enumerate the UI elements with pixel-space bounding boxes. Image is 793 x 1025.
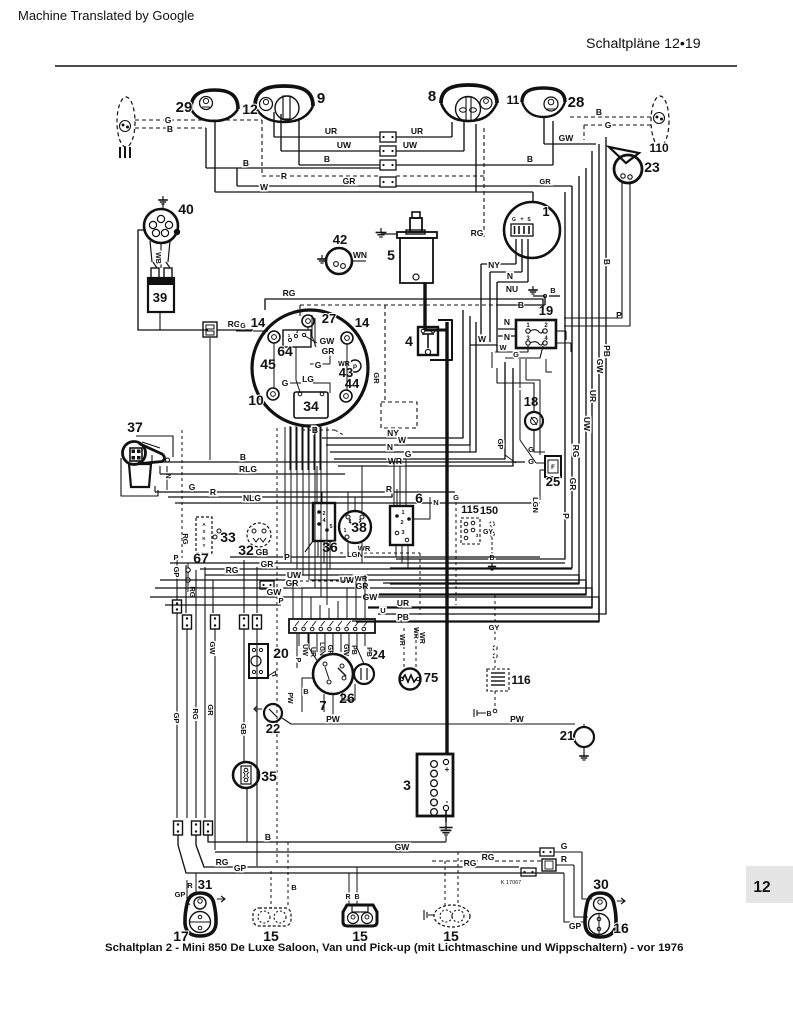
svg-text:G: G	[240, 323, 246, 330]
svg-text:UW: UW	[340, 575, 355, 585]
speedometer 34	[294, 392, 328, 418]
wire RG dashed bottom	[432, 852, 541, 862]
label 4	[405, 333, 413, 349]
svg-text:4: 4	[405, 333, 413, 349]
wire NLG band	[175, 493, 540, 503]
svg-text:U: U	[380, 606, 385, 615]
svg-text:22: 22	[266, 721, 280, 736]
rear lamp 17 / 31	[185, 893, 225, 936]
page number Schaltplaene 12-19	[586, 36, 701, 52]
svg-text:RLG: RLG	[239, 464, 257, 474]
fuel pump 5	[376, 212, 437, 283]
wire GY dashed	[489, 595, 500, 668]
svg-text:P: P	[294, 658, 301, 663]
svg-text:RG: RG	[283, 288, 296, 298]
strip feed wires down	[299, 633, 365, 650]
svg-text:G: G	[561, 841, 568, 851]
wire N staircase	[330, 322, 476, 452]
svg-text:Machine Translated by Google: Machine Translated by Google	[18, 8, 194, 23]
svg-text:GP: GP	[496, 439, 505, 450]
svg-text:Y: Y	[202, 543, 205, 548]
label 25	[546, 474, 560, 489]
switch 32 (dashed circle)	[247, 523, 271, 547]
svg-text:20: 20	[273, 645, 289, 661]
strip top feed wires	[293, 575, 365, 619]
svg-text:GR: GR	[568, 478, 578, 491]
dashed vertical mid	[276, 428, 278, 866]
svg-text:WR: WR	[388, 456, 402, 466]
rear lamp 15 dashed right	[424, 852, 470, 927]
fuel gauge 64	[283, 329, 317, 347]
flasher unit 25	[528, 445, 561, 477]
switch 33 (dashed)	[196, 517, 221, 553]
label 28	[568, 94, 585, 111]
label 19	[539, 303, 553, 318]
svg-text:R: R	[386, 484, 392, 494]
label 5	[387, 247, 395, 263]
ignition lamp 43 44	[349, 360, 361, 372]
svg-text:UR: UR	[411, 126, 423, 136]
inline fuse G	[540, 841, 592, 899]
battery cable (heavy)	[425, 283, 447, 754]
svg-text:PW: PW	[286, 692, 293, 704]
svg-text:GR: GR	[261, 559, 274, 569]
svg-text:UR: UR	[325, 126, 337, 136]
wire GP bottom	[178, 835, 564, 873]
label 12	[242, 101, 258, 117]
svg-text:UR: UR	[588, 390, 598, 402]
wire PW	[282, 714, 575, 724]
wire B band	[152, 425, 525, 462]
svg-text:WR: WR	[418, 632, 425, 644]
svg-text:UW: UW	[403, 140, 418, 150]
distributor 40	[144, 196, 180, 243]
lamp 21	[574, 724, 594, 760]
wire LGN band	[230, 550, 363, 559]
svg-text:NY: NY	[488, 260, 500, 270]
svg-text:GR: GR	[286, 578, 299, 588]
wire GW band 2	[150, 587, 599, 622]
svg-text:18: 18	[524, 394, 538, 409]
svg-text:28: 28	[568, 94, 585, 111]
label 7	[319, 698, 326, 713]
svg-text:38: 38	[351, 519, 367, 535]
marker III left	[120, 147, 130, 158]
wire B ground below 116	[474, 691, 497, 718]
svg-text:B: B	[354, 894, 359, 901]
svg-text:42: 42	[333, 232, 347, 247]
svg-text:RG: RG	[216, 857, 229, 867]
svg-text:P: P	[278, 596, 283, 605]
horn 110 / 23	[609, 147, 642, 183]
svg-text:R: R	[345, 894, 350, 901]
caption	[105, 942, 683, 954]
battery 3	[417, 754, 453, 833]
wire GW from lamp 28	[544, 118, 596, 144]
label 15 centre	[352, 928, 368, 944]
svg-text:39: 39	[153, 290, 167, 305]
panel lamp 14 left	[268, 331, 280, 343]
svg-text:7: 7	[319, 698, 326, 713]
svg-text:B: B	[303, 687, 309, 696]
svg-text:GB: GB	[239, 723, 248, 735]
svg-text:LG: LG	[302, 374, 314, 384]
heated rear window 116 (dashed)	[487, 669, 509, 691]
label 1	[542, 204, 549, 219]
label 44	[345, 376, 360, 391]
svg-text:P: P	[173, 553, 178, 562]
label 45	[260, 356, 276, 372]
page tab 12	[746, 866, 793, 903]
svg-text:GP: GP	[569, 921, 582, 931]
svg-text:W: W	[398, 435, 407, 445]
wire RG left vertical 2	[191, 570, 200, 818]
connector RG small	[501, 868, 536, 886]
svg-text:3: 3	[401, 530, 404, 536]
svg-text:PW: PW	[510, 714, 525, 724]
wire WB coil	[154, 243, 161, 268]
svg-text:25: 25	[546, 474, 560, 489]
cluster internal wiring	[274, 315, 381, 393]
svg-text:24: 24	[371, 647, 386, 662]
label 10	[248, 392, 264, 408]
svg-text:GP: GP	[234, 863, 247, 873]
wire RG dashed drop under headlamp 8	[471, 128, 484, 240]
wire R band	[168, 484, 392, 497]
svg-text:PB: PB	[350, 645, 357, 655]
svg-text:31: 31	[198, 877, 212, 892]
svg-text:LGN: LGN	[531, 497, 540, 513]
svg-text:WR: WR	[355, 574, 368, 583]
svg-text:Schaltpläne 12•19: Schaltpläne 12•19	[586, 36, 701, 52]
svg-text:21: 21	[560, 728, 574, 743]
svg-text:33: 33	[220, 529, 236, 545]
wire RG band mid	[205, 565, 579, 584]
label 21	[560, 728, 574, 743]
lamp bottom right 44	[340, 390, 352, 402]
wire G sidelight right (dashed)	[584, 120, 652, 140]
label 115	[461, 504, 479, 516]
svg-text:G: G	[453, 493, 459, 502]
svg-text:35: 35	[261, 768, 277, 784]
label 8	[428, 88, 436, 105]
svg-text:GB: GB	[256, 547, 269, 557]
wire UW band	[160, 570, 586, 595]
label 24	[365, 647, 386, 662]
wire B sidelight left (dashed)	[135, 124, 206, 134]
heater switch 20	[249, 644, 276, 678]
rear lamp 30 / 16	[585, 893, 625, 937]
multi-pin connector strip	[289, 619, 375, 633]
warning lamp 27	[302, 315, 314, 327]
svg-text:G: G	[512, 217, 516, 223]
wire P band 1	[170, 552, 565, 563]
wire P band 2	[165, 596, 284, 605]
svg-text:RG: RG	[482, 852, 495, 862]
svg-text:GW: GW	[395, 842, 411, 852]
wire UR	[274, 112, 452, 137]
label 18	[524, 394, 538, 409]
cluster drop wires	[290, 426, 320, 470]
label 15 left	[263, 928, 279, 944]
wire GR left vertical	[205, 567, 215, 818]
fuse box 19	[516, 320, 556, 348]
svg-text:B: B	[167, 124, 173, 134]
svg-text:11: 11	[507, 93, 520, 107]
svg-text:RG: RG	[464, 858, 477, 868]
wire GR band 2	[155, 578, 592, 608]
bottom connector row	[174, 821, 213, 835]
svg-text:W: W	[499, 343, 507, 352]
fusebox drop wires	[470, 342, 552, 455]
label 11	[507, 93, 520, 107]
label 116	[511, 673, 531, 687]
label 43	[339, 365, 353, 380]
svg-text:N: N	[433, 498, 438, 507]
label 3	[403, 777, 411, 793]
wire GR band	[200, 559, 572, 569]
svg-text:23: 23	[644, 159, 660, 175]
label 30	[593, 876, 609, 892]
svg-text:27: 27	[322, 311, 336, 326]
svg-text:5: 5	[387, 247, 395, 263]
headlamp 8	[441, 85, 497, 122]
wires into lamp 17	[187, 873, 196, 905]
svg-text:12: 12	[242, 101, 258, 117]
svg-text:37: 37	[127, 419, 143, 435]
svg-text:GR: GR	[206, 704, 215, 716]
svg-text:PB: PB	[397, 612, 409, 622]
label 27	[322, 311, 336, 326]
bundle labels rotated	[561, 259, 622, 519]
svg-text:115: 115	[461, 504, 479, 516]
svg-text:GW: GW	[595, 359, 605, 375]
label 32	[238, 542, 254, 558]
wire G dashed right	[453, 493, 459, 605]
svg-text:K 17067: K 17067	[501, 880, 522, 886]
svg-text:116: 116	[511, 673, 531, 687]
svg-text:1: 1	[401, 510, 404, 516]
wire R (dashed)	[262, 120, 484, 181]
svg-text:2: 2	[322, 511, 325, 517]
svg-text:GP: GP	[172, 567, 181, 578]
connector 150 (dashed)	[488, 522, 496, 570]
label 38	[351, 519, 367, 535]
wire RG to top	[265, 288, 543, 310]
wires to 75 (WR dashed)	[398, 628, 425, 667]
label WN	[353, 250, 367, 260]
label 29	[176, 99, 193, 116]
wire RLG band	[160, 464, 345, 474]
panel lamp 14 right	[341, 332, 353, 344]
svg-text:30: 30	[593, 876, 609, 892]
svg-text:PW: PW	[326, 714, 341, 724]
label 39	[153, 290, 167, 305]
svg-text:N: N	[387, 442, 393, 452]
header rule	[55, 65, 737, 67]
flasher warning lamp 18	[525, 412, 543, 430]
label 35	[261, 768, 277, 784]
wire G band	[155, 482, 455, 492]
horn feed wires	[564, 183, 630, 326]
label R 17	[187, 881, 193, 890]
svg-text:40: 40	[178, 201, 194, 217]
page header text	[18, 8, 194, 23]
cluster drop wires long	[285, 427, 327, 605]
svg-text:14: 14	[251, 315, 266, 330]
wire N wiper	[164, 466, 171, 490]
junction connector row (4 inline connectors)	[380, 132, 396, 187]
switch 24	[354, 664, 374, 684]
svg-text:GW: GW	[320, 336, 336, 346]
svg-text:RG: RG	[471, 228, 484, 238]
wire bundle right side (P GR RG UW UR GW PB)	[352, 137, 606, 621]
svg-text:LGN: LGN	[318, 642, 325, 656]
svg-text:WR: WR	[398, 634, 405, 646]
svg-text:B: B	[265, 832, 271, 842]
svg-text:Schaltplan 2 - Mini 850 De Lux: Schaltplan 2 - Mini 850 De Luxe Saloon, …	[105, 942, 683, 954]
dashed harness boundary	[300, 305, 543, 428]
number plate lamp 15	[343, 867, 377, 926]
svg-text:1: 1	[542, 204, 549, 219]
label 42	[333, 232, 347, 247]
label 20	[273, 645, 289, 661]
wire WR staircase	[338, 368, 513, 466]
svg-text:G: G	[605, 120, 612, 130]
wire B bottom	[208, 826, 451, 842]
svg-text:B: B	[486, 711, 491, 718]
coil low tension wires	[138, 230, 208, 330]
svg-text:NLG: NLG	[243, 493, 261, 503]
svg-text:14: 14	[355, 315, 370, 330]
svg-text:PB: PB	[602, 345, 612, 357]
svg-text:B: B	[596, 107, 602, 117]
wires at control box and fuse box	[470, 239, 571, 359]
svg-text:F: F	[551, 465, 555, 471]
svg-text:N: N	[507, 271, 513, 281]
interior lamp 35	[233, 762, 259, 788]
svg-text:G: G	[513, 350, 519, 359]
switch 75	[400, 669, 421, 690]
label 14 left	[251, 315, 266, 330]
svg-text:GR: GR	[539, 177, 551, 186]
svg-text:RG: RG	[228, 319, 241, 329]
wire GB band	[230, 547, 540, 557]
svg-text:UW: UW	[337, 140, 352, 150]
svg-text:150: 150	[480, 505, 498, 517]
wire N switch 6	[413, 497, 439, 519]
wire B dashed into cluster	[302, 430, 345, 436]
svg-text:GP: GP	[172, 713, 181, 724]
svg-text:R: R	[281, 171, 287, 181]
wire B headlamps	[299, 120, 553, 165]
label 17	[173, 928, 189, 944]
svg-text:GW: GW	[342, 644, 349, 656]
label GP 17	[175, 890, 186, 899]
wire GB vertical to lamp 35	[239, 560, 249, 842]
label 64	[277, 343, 293, 359]
svg-text:G: G	[405, 449, 412, 459]
label 16	[613, 920, 629, 936]
svg-text:-: -	[446, 797, 449, 806]
label 75	[424, 670, 438, 685]
svg-text:B: B	[240, 452, 246, 462]
svg-text:8: 8	[428, 88, 436, 105]
label GY	[483, 529, 493, 536]
svg-text:WR: WR	[338, 361, 350, 368]
label 6	[415, 490, 423, 506]
strip bottom wires to ignition switch	[294, 633, 364, 668]
svg-text:G: G	[189, 482, 196, 492]
svg-text:75: 75	[424, 670, 438, 685]
svg-text:5: 5	[329, 524, 332, 530]
sidelight front right (dashed oval)	[651, 96, 669, 146]
svg-text:10: 10	[248, 392, 264, 408]
wire RG bottom	[196, 835, 519, 868]
connector 115 (dashed)	[461, 518, 480, 544]
svg-text:RG: RG	[571, 445, 581, 458]
svg-text:6: 6	[415, 490, 423, 506]
wires below ignition switch	[302, 678, 355, 724]
svg-text:WN: WN	[353, 250, 367, 260]
ignition switch 26	[313, 654, 353, 694]
wire GR top	[237, 168, 572, 186]
wire B long from lamp 29	[206, 128, 380, 168]
lamp 10	[267, 388, 279, 400]
svg-text:W: W	[478, 334, 487, 344]
svg-text:P: P	[353, 365, 357, 371]
label 150	[480, 505, 498, 517]
strip labels	[301, 642, 357, 657]
svg-text:G: G	[315, 360, 322, 370]
svg-text:29: 29	[176, 99, 193, 116]
wires around 18 and 25	[496, 368, 545, 513]
wire GW left vertical	[208, 580, 220, 850]
svg-text:R: R	[561, 854, 567, 864]
svg-text:B: B	[243, 158, 249, 168]
label 40	[178, 201, 194, 217]
label 37	[127, 419, 143, 435]
label 26	[339, 690, 355, 706]
brake switch 22	[254, 704, 282, 722]
label 23	[644, 159, 660, 175]
wire G staircase	[334, 362, 505, 459]
svg-text:GR: GR	[372, 372, 381, 384]
instrument cluster (big circle)	[252, 310, 368, 426]
svg-text:B: B	[291, 883, 297, 892]
wire 14 left feed	[236, 323, 252, 331]
label 31	[198, 877, 212, 892]
rear lamp 15 dashed left	[253, 842, 297, 926]
ignition coil 39	[148, 241, 174, 312]
svg-text:B: B	[602, 259, 612, 265]
svg-text:16: 16	[613, 920, 629, 936]
svg-text:UR: UR	[397, 598, 409, 608]
svg-text:N: N	[504, 332, 510, 342]
svg-text:GR: GR	[322, 346, 335, 356]
wiper motor 42	[317, 248, 366, 274]
label 15 right	[443, 928, 459, 944]
svg-text:GY: GY	[483, 529, 493, 536]
wire WR dashed band	[300, 544, 420, 614]
svg-text:1: 1	[344, 528, 347, 534]
svg-text:34: 34	[303, 398, 319, 414]
svg-text:UR: UR	[309, 647, 316, 657]
control box 1 (circle)	[504, 202, 560, 258]
svg-text:PB: PB	[365, 647, 372, 657]
label 110	[649, 141, 669, 155]
dashed vertical left	[181, 430, 183, 558]
